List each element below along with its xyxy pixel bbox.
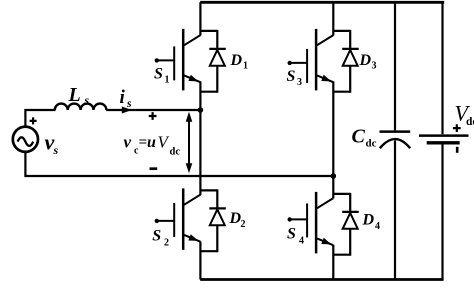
- wire: phase wire to bridge leg 1: [106, 109, 200, 111]
- label vc=uVdc: [124, 133, 181, 158]
- wire: S3 collector link to D3: [333, 30, 350, 32]
- diode D1 (anti-parallel): [209, 30, 226, 93]
- svg-text:1: 1: [243, 61, 248, 72]
- wire: leg 2 midpoint vertical: [332, 81, 334, 198]
- svg-text:S: S: [287, 226, 296, 243]
- label is: [120, 87, 133, 110]
- wire: Cdc to bottom rail: [394, 141, 396, 280]
- transistor S3 (IGBT): [288, 29, 334, 91]
- label Ls: [68, 84, 90, 107]
- wire: ac source bottom lead: [25, 152, 333, 176]
- wire: leg 2 top (rail to S3): [332, 2, 334, 35]
- wire: leg 1 bottom (S2 to rail): [199, 241, 201, 279]
- svg-text:3: 3: [372, 61, 377, 72]
- svg-text:D: D: [362, 212, 375, 229]
- svg-text:D: D: [359, 52, 372, 69]
- svg-text:dc: dc: [366, 138, 377, 150]
- svg-text:v: v: [124, 133, 132, 152]
- label S1: [154, 65, 170, 85]
- wire: Vdc to bottom rail: [441, 144, 443, 279]
- label Vdc: [455, 101, 474, 129]
- wire: S4 emitter link to D4: [333, 254, 350, 256]
- svg-text:3: 3: [297, 77, 302, 88]
- label + (ac source polarity): [30, 117, 37, 124]
- diode D3 (anti-parallel): [342, 30, 359, 93]
- label D3: [359, 52, 377, 72]
- svg-text:D: D: [230, 52, 243, 69]
- svg-text:L: L: [68, 84, 81, 106]
- svg-text:4: 4: [375, 221, 380, 232]
- label Cdc: [352, 126, 377, 150]
- label D4: [362, 212, 381, 233]
- svg-text:2: 2: [164, 238, 169, 249]
- label vs: [45, 130, 59, 158]
- label S4: [287, 226, 304, 247]
- wire: S1 collector link to D1: [200, 30, 217, 32]
- label - (vc polarity): [150, 167, 158, 170]
- current arrow is: [122, 107, 132, 114]
- label S2: [152, 228, 169, 249]
- label + (vc polarity): [149, 112, 157, 120]
- label + (battery polarity): [453, 124, 461, 132]
- diode D4 (anti-parallel): [342, 193, 359, 256]
- svg-text:s: s: [126, 98, 132, 110]
- svg-text:S: S: [154, 65, 163, 82]
- ac source vs: [13, 127, 38, 152]
- svg-text:S: S: [152, 228, 161, 245]
- svg-text:dc: dc: [170, 147, 181, 158]
- svg-text:dc: dc: [466, 116, 474, 128]
- diode D2 (anti-parallel): [209, 189, 226, 252]
- transistor S1 (IGBT): [155, 29, 201, 91]
- wire: S3 emitter link to D3: [333, 91, 350, 93]
- node: leg 1 midpoint junction: [198, 107, 204, 113]
- svg-text:u: u: [147, 134, 156, 151]
- wire: dc-link top to Cdc: [394, 2, 396, 130]
- label - (battery polarity): [456, 147, 459, 153]
- capacitor Cdc: [380, 132, 411, 149]
- wire: leg 1 midpoint vertical: [199, 81, 201, 194]
- label S3: [287, 68, 303, 88]
- wire: S1 emitter link to D1: [200, 91, 217, 93]
- svg-text:4: 4: [299, 236, 304, 247]
- wire: dc-link top to Vdc: [441, 2, 443, 134]
- svg-text:s: s: [84, 95, 90, 107]
- top DC rail: [200, 1, 444, 4]
- label D2: [229, 210, 246, 230]
- svg-text:S: S: [287, 68, 296, 85]
- node: leg 2 midpoint junction: [331, 173, 337, 179]
- wire: S4 collector link to D4: [333, 193, 350, 195]
- svg-text:=: =: [139, 135, 148, 151]
- wire: S2 collector link to D2: [200, 189, 217, 191]
- voltage arrow vc (double-headed): [186, 112, 193, 173]
- bottom DC rail: [200, 278, 443, 281]
- label D1: [230, 52, 249, 72]
- wire: leg 2 bottom (S4 to rail): [332, 245, 334, 280]
- svg-text:1: 1: [165, 74, 170, 85]
- inductor Ls: [55, 104, 107, 110]
- battery Vdc: [419, 136, 469, 143]
- transistor S4 (IGBT): [288, 192, 334, 254]
- transistor S2 (IGBT): [155, 188, 201, 250]
- wire: leg 1 top (rail to S1): [199, 2, 201, 35]
- svg-text:s: s: [53, 143, 59, 157]
- svg-text:C: C: [352, 126, 366, 148]
- wire: ac source top lead: [25, 110, 55, 127]
- svg-text:i: i: [120, 87, 126, 108]
- svg-text:2: 2: [241, 219, 246, 230]
- wire: S2 emitter link to D2: [200, 250, 217, 252]
